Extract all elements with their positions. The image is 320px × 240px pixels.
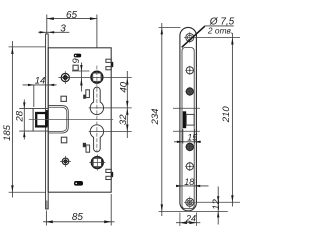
svg-text:28: 28	[15, 110, 26, 122]
svg-text:9: 9	[71, 58, 82, 64]
svg-text:24: 24	[185, 214, 196, 224]
svg-text:32: 32	[118, 114, 129, 125]
svg-text:3: 3	[60, 24, 66, 35]
svg-text:185: 185	[2, 124, 13, 141]
svg-text:234: 234	[150, 108, 161, 125]
svg-text:18: 18	[184, 177, 194, 187]
svg-text:14: 14	[35, 75, 46, 86]
svg-text:2 отв.: 2 отв.	[207, 26, 233, 36]
svg-text:65: 65	[66, 10, 78, 21]
svg-text:85: 85	[72, 212, 84, 223]
svg-text:12: 12	[211, 199, 222, 210]
svg-text:210: 210	[221, 106, 232, 124]
svg-text:15: 15	[187, 133, 198, 143]
svg-text:40: 40	[118, 81, 129, 92]
